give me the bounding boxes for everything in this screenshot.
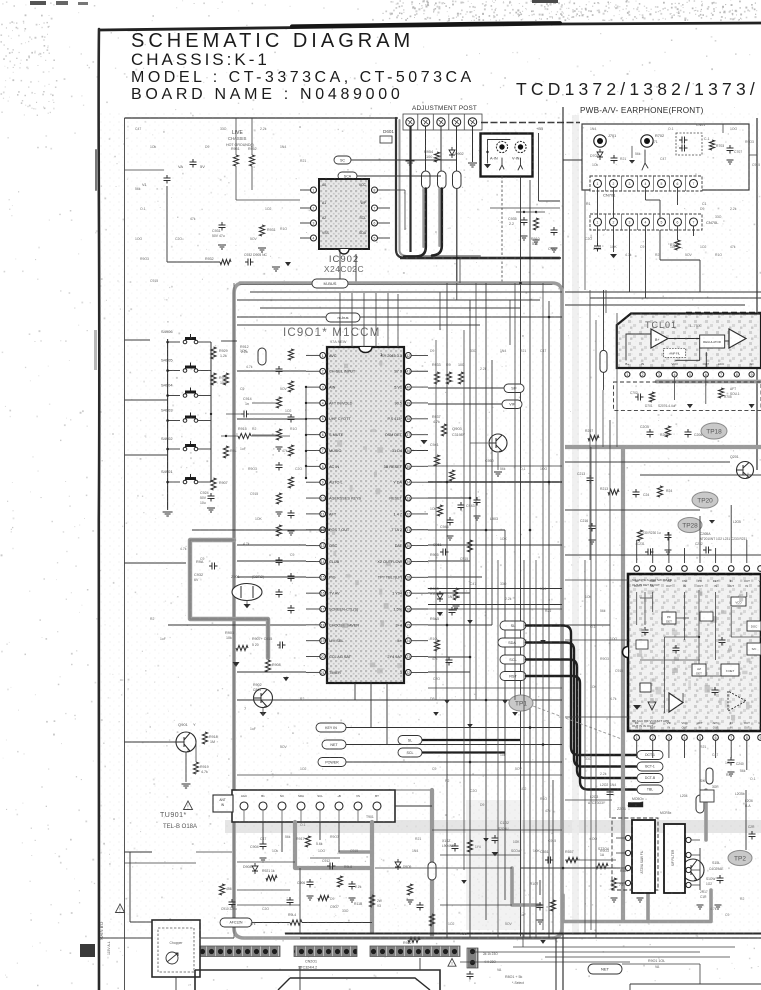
capacitor inside IF 4 [719,637,726,646]
wire bus row 1 [250,291,562,293]
transistor Q901 [176,732,196,752]
capacitor C944 [447,517,454,526]
wire cross 3 [428,687,562,689]
junction [485,699,488,702]
IC902 pin 6 [372,220,378,226]
warning triangle bottom right [448,959,456,967]
IC901 pin 12 [320,527,326,533]
ground keypad rail [163,512,173,516]
svg-text:O.1: O.1 [140,207,146,211]
wire pin34 heavy [428,481,562,483]
svg-text:C47: C47 [260,837,266,841]
junction [305,402,307,404]
IC901 pin 23 [405,654,411,660]
ground in IF block [633,705,641,710]
wire switch left [168,481,180,483]
svg-text:C9: C9 [640,245,644,249]
wire pin stub [378,189,391,191]
svg-text:2.2k: 2.2k [730,207,737,211]
wire IC901 left pin 13 stub [306,545,320,547]
svg-text:33O: 33O [470,349,477,353]
ground jack [484,164,491,168]
resistor R931 [259,225,264,236]
svg-text:1OO: 1OO [590,837,598,841]
wire [539,200,561,202]
IC901 notch [359,347,372,353]
junction [446,481,449,484]
wire thick bus corner [396,118,560,258]
keypad output rail [210,342,212,482]
wire [677,226,679,240]
warning triangle tuner [184,801,193,810]
junction [305,386,307,388]
capacitor C216 [589,523,596,532]
separator [621,176,623,191]
wire CN pin6 [677,188,679,206]
svg-text:5OV: 5OV [685,253,693,257]
svg-text:C47: C47 [712,753,718,757]
wire [640,474,761,476]
varistor SVP901 [232,584,262,601]
junction [446,624,449,627]
wire [440,854,520,856]
ground [697,905,704,909]
ground [288,531,295,535]
IC901 pin 40 [405,384,411,390]
svg-text:R9O1 1OL: R9O1 1OL [648,959,665,963]
wire IC901 left pin 14 stub [306,560,320,562]
capacitor C906 [307,879,314,888]
op-amp A2 in TCL01 [729,329,746,348]
wire thick I2C 4 [526,676,637,790]
arrow terminal [540,940,546,944]
svg-text:47k: 47k [190,217,196,221]
capacitor C231 [645,549,654,556]
wire inside IF 10 [715,592,717,660]
connector CN701 pin 5 [658,180,666,188]
diode D909 [395,859,401,870]
wire bottom right 2 [470,951,700,953]
warning triangle bottom left [116,904,125,913]
resistor R216 [637,530,642,541]
wire bottom keypad [192,529,280,531]
switch S4903 [183,413,198,423]
wire IC902 pin to bus [355,254,357,283]
wire IF bottom pin down [668,740,670,758]
wire [631,146,633,158]
resistor R919 [193,762,198,774]
wire switch right [198,448,211,450]
resistor R932 [220,259,231,264]
svg-text:47k: 47k [545,809,551,813]
capacitor C971 [349,881,356,890]
wire right of block [565,624,610,626]
connector CN702 box [590,214,702,230]
wire trace edge [190,540,268,658]
adjustment pot VR602 [421,118,429,126]
arrow terminal [512,712,518,716]
capacitor C951 [440,549,449,556]
wire to SIF [428,387,504,389]
resistor R929 [211,347,216,359]
resistor R931b [223,373,228,385]
wire vertical channel extra [542,283,544,930]
IF block bottom pin 4 [682,735,688,741]
wire into IF block pin [730,505,732,563]
capacitor C924 [208,493,215,502]
svg-text:1O2: 1O2 [265,207,272,211]
svg-text:TCD1372/1382/1373/: TCD1372/1382/1373/ [516,79,759,99]
svg-text:R8O1 + 5k: R8O1 + 5k [505,975,522,979]
wire power [346,761,562,763]
component on B+ trace [428,862,436,880]
wire IC901 right pin 22 stub [411,671,428,673]
wire [375,867,440,869]
wire [428,560,470,562]
svg-text:C9: C9 [432,767,436,771]
svg-text:R2: R2 [300,697,304,701]
regulator box [700,335,725,348]
ground [349,898,356,902]
svg-text:1OK: 1OK [533,849,541,853]
wire vertical right channel 2 [595,320,597,560]
svg-text:R21: R21 [415,837,421,841]
separator [685,176,687,191]
svg-text:1Ok: 1Ok [150,145,157,149]
svg-text:5OV: 5OV [515,767,523,771]
wire pot3 down [440,126,442,172]
wire regulator out [725,340,729,342]
arrow terminal [467,620,473,624]
wire IC901 left pin 7 stub [306,450,320,452]
wire [237,889,290,891]
wire filter pin [691,839,700,841]
resistor R213 [608,489,619,494]
wire vertical channel extra [535,560,537,938]
resistor R951 [233,155,238,166]
IC901 pin 19 [320,638,326,644]
svg-text:115V A-L: 115V A-L [107,941,111,955]
wire IC901 left pin 10 stub [306,497,320,499]
wire IF bottom pin down [652,740,654,758]
IC901 pin 7 [320,448,326,454]
wire VT/M down [603,372,605,390]
separator [637,176,639,191]
wire thick bus shadow [400,120,481,256]
wire [699,758,701,790]
bottom IC chamfer shape [278,978,430,990]
svg-text:1uF: 1uF [250,727,256,731]
wire IF bottom pin down [746,740,748,758]
op-amp A1 in TCL01 [651,329,668,348]
net label SCL [500,655,526,664]
IC901 pin 38 [405,416,411,422]
wire vertical bottom 2 [419,958,421,970]
separator [669,176,671,191]
wire border to keypad [125,399,168,401]
transistor Q903 [489,434,507,452]
wire [251,435,290,437]
ANT IN box [213,795,233,812]
ground R931 [258,248,266,252]
resistor R964 [434,640,439,651]
wire inside IF 3 [676,617,689,619]
op-amp dashed inside IF block [728,691,746,711]
IF block bottom pin 1 [634,735,640,741]
IC902 notch [339,249,349,254]
junction [548,316,551,319]
wire IC901 left pin 9 stub [306,481,320,483]
wire cross 4 [237,774,562,776]
wire bottom box [630,983,761,985]
fuse F602 [438,171,447,189]
svg-text:4.7k: 4.7k [625,253,632,257]
component X902 [258,348,266,365]
svg-text:O.1: O.1 [300,823,306,827]
IC U901 micom body [327,347,404,683]
svg-text:C2O: C2O [433,677,440,681]
wire R952 up [251,128,253,155]
capacitor C972 [287,897,294,906]
capacitor left column [288,573,295,582]
wire to IC902 [236,199,300,201]
saw filter pin [625,835,630,840]
wire [125,169,165,171]
connector CN701 pin 6 [674,180,682,188]
resistor R961 [434,455,439,466]
wire IC bottom 3 [386,683,388,745]
IC901 pin 33 [405,495,411,501]
svg-text:D9: D9 [700,207,704,211]
diode D702 [597,149,603,160]
capacitor C9 [209,563,218,570]
op-amp inside IF block [669,693,683,712]
connector CN702 pin 3 [626,218,634,226]
junction [166,448,169,451]
wire vertical channel extra [514,283,516,700]
adjustment pot VR605 [468,118,476,126]
wire pin21 long [237,671,306,673]
wire down [699,260,701,292]
jack V-IN [515,141,526,152]
wire inside IF [664,637,666,713]
wire switch left [168,420,180,422]
IC901 pin 8 [320,463,326,469]
ground [492,852,499,856]
IC901 pin 20 [320,654,326,660]
capacitor C217 [665,532,672,541]
wire key in [346,727,562,729]
IF block top pin 2 [650,566,656,572]
resistor R207 [588,435,599,440]
wire IC901 right pin 33 stub [411,497,428,499]
ground [307,896,314,900]
tuner pin 2 [259,802,267,810]
wire [428,576,482,578]
ground C924 [207,508,215,512]
wire IC901 left pin 18 stub [306,624,320,626]
adjustment pot VR603 [437,118,445,126]
svg-text:1N4: 1N4 [540,587,546,591]
wire R951 down [235,166,237,200]
junction [469,497,472,500]
ground [727,160,734,164]
arrow terminal [502,700,508,704]
svg-text:CN2O1: CN2O1 [305,960,317,964]
IC901 pin 16 [320,590,326,596]
wire thick trace horizontal right [565,445,761,449]
wire right stub 5 [565,859,616,861]
wire vertical channel extra [463,330,465,870]
IC902 pin 2 [311,205,317,211]
ground [665,550,672,554]
wire [404,190,406,230]
capacitor C911 [492,835,499,844]
pot cross [454,120,459,125]
arrow [749,404,755,408]
capacitor C936 [551,227,558,236]
wire IC901 left pin 12 stub [306,529,320,531]
junction [529,529,532,532]
junction [305,434,307,436]
svg-text:33O: 33O [715,215,722,219]
svg-text:D9: D9 [205,145,209,149]
IF block top pin 7 [728,566,734,572]
ground [709,520,715,524]
wire into IF block pin [636,540,638,563]
connector CN702 pin 5 [658,218,666,226]
wire [625,334,627,360]
separator [653,176,655,191]
wire long vertical right of block [562,107,564,990]
wire [440,867,512,869]
wire [522,934,524,948]
IC901 pin 9 [320,479,326,485]
IC901 pin 31 [405,527,411,533]
wire pin stub [378,207,391,209]
wire vertical 2 [552,780,554,933]
capacitor C944 [288,414,295,423]
wire IC901 left pin 21 stub [306,671,320,673]
junction [166,394,169,397]
wire [390,189,405,191]
wire CN pin4 [645,188,647,201]
fuse F603 [453,171,462,189]
wire net [346,744,562,746]
wire thick trace tuner 1 [295,822,372,868]
A/V input jack box J601 [481,134,533,177]
IC902 pin 7 [372,205,378,211]
wire inside IF 4 [682,693,684,702]
resistor R952 [288,381,293,392]
svg-text:2.2k: 2.2k [260,127,267,131]
chopper symbol [166,952,178,964]
block outline left inner [233,283,235,938]
junction [529,257,532,260]
ground [728,772,735,776]
wire bus to right 3 [565,304,745,306]
wire switch left [168,341,180,343]
wire inside IF 6 [731,636,761,638]
svg-text:1uF: 1uF [160,637,166,641]
svg-text:47k: 47k [730,245,736,249]
wire vertical channel [446,283,448,938]
wire CN702 pin4 down [645,226,647,298]
svg-text:33O: 33O [585,757,592,761]
IC901 pin 34 [405,479,411,485]
wire [221,340,237,342]
IF block top pin 4 [682,566,688,572]
wire right stub 4 [565,799,612,801]
wire thick drop 2 [432,189,442,256]
ground C931 [218,245,226,249]
wire into IF block pin [668,532,670,563]
separator [621,214,623,230]
IC901 pin 21 [320,670,326,676]
capacitor C214 [633,489,640,498]
svg-text:C9O7: C9O7 [330,905,339,909]
resistor R940 [288,349,293,360]
capacitor C941 [276,366,283,375]
wire IF bottom pin down [684,740,686,758]
tuner pin lead [376,810,378,822]
capacitor C915 [277,642,286,649]
wire [722,124,724,133]
audio filter pin [686,852,691,857]
ground varistor [244,604,251,608]
arrow left solid [628,803,642,806]
svg-text:2.2k: 2.2k [505,597,512,601]
resistor R918 [202,732,207,744]
svg-text:R2: R2 [252,427,256,431]
switch S4902 [183,441,198,451]
net label POWER [318,758,346,767]
wire drop to IC901 top [387,293,389,347]
wire IC901 right pin 31 stub [411,529,428,531]
jack prong [642,150,648,170]
wire bus to right 2 [590,297,761,299]
svg-text:C915: C915 [460,557,468,561]
junction [469,656,472,659]
pot cross [408,120,413,125]
capacitor C933 [245,259,254,266]
wire cross 6 [432,829,562,831]
wire IC902 pin to bus [339,249,341,283]
wire left vertical [129,852,131,922]
tuner pin 1 [240,802,248,810]
IC901 pin 14 [320,559,326,565]
ground [589,540,596,544]
ground [272,267,280,271]
wire bus row 3 [260,307,520,309]
svg-text:R922: R922 [403,941,412,945]
junction [225,435,227,437]
wire [565,461,730,463]
separator [637,214,639,230]
IC902 pin 4 [311,235,317,241]
wire thick drop 1 [404,189,426,257]
wire pin2 long [237,370,306,372]
dashed box around saw filter [612,818,658,890]
wire to VIF [428,403,502,405]
resistor R972 [318,895,329,900]
svg-text:C915: C915 [350,849,358,853]
svg-text:R1O: R1O [430,637,437,641]
IF block bottom pin 8 [744,735,750,741]
svg-text:C9: C9 [240,387,244,391]
IC U902 body [319,179,369,249]
ground [276,447,283,451]
